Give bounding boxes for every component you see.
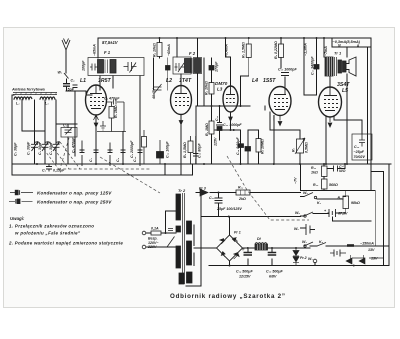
wire C20 col: [218, 193, 220, 217]
capacitor C12 dark: [217, 127, 222, 131]
svg-text:5pF: 5pF: [68, 88, 75, 92]
Tr2 right bars: [187, 221, 192, 234]
svg-text:C₉: C₉: [71, 79, 76, 83]
wire w4 stub: [301, 214, 372, 222]
svg-text:~7V: ~7V: [294, 177, 298, 184]
switch W3 contact: [304, 245, 306, 247]
svg-text:R₅ 1,5MΩ: R₅ 1,5MΩ: [183, 142, 187, 158]
wire det column: [203, 58, 205, 106]
contact tick: [347, 244, 354, 247]
F2 coil secondary: [195, 59, 201, 73]
speaker cone: [346, 57, 356, 76]
F1 trimmer cap: [124, 62, 137, 73]
wire dc mid rail: [201, 216, 301, 218]
dashed tuning link: [60, 138, 69, 169]
mains plug contacts: [142, 231, 146, 235]
svg-text:Tr 2: Tr 2: [178, 188, 186, 193]
svg-text:w położeniu „Fale średnie”: w położeniu „Fale średnie”: [15, 231, 81, 236]
wire right col b: [371, 172, 384, 266]
tube L3 filament arrow: [229, 112, 233, 121]
capacitor C13s: [193, 136, 199, 164]
svg-text:DM70: DM70: [215, 81, 228, 86]
svg-text:Pr 1: Pr 1: [234, 231, 241, 235]
svg-text:1T4T: 1T4T: [179, 78, 192, 84]
jack W6: [306, 224, 315, 235]
capacitor Ca: [80, 141, 85, 167]
wire w6 stub: [301, 227, 307, 229]
wire R8 column: [281, 38, 285, 86]
capacitor C18: [268, 253, 277, 256]
wire C16v col: [240, 130, 242, 164]
svg-text:R₃ 1MΩ: R₃ 1MΩ: [205, 123, 209, 136]
svg-text:R₉ 10kΩ: R₉ 10kΩ: [153, 43, 157, 57]
wire speaker right drop: [346, 74, 348, 164]
tube L1 filament arrow: [94, 115, 99, 127]
wire bridge bottom: [229, 261, 231, 266]
wire C16 column: [316, 38, 318, 95]
capacitor row: Ck: [121, 150, 126, 153]
svg-text:C₄ 30pF: C₄ 30pF: [49, 141, 53, 155]
tube L1 envelope: [86, 85, 107, 115]
svg-text:C₁₂ 1000pF: C₁₂ 1000pF: [223, 123, 242, 127]
F2 core: [192, 58, 193, 74]
resistor R10: [322, 179, 328, 189]
svg-text:C₁₉ 500μF: C₁₉ 500μF: [236, 270, 253, 274]
svg-text:70/02V: 70/02V: [354, 155, 366, 159]
F1 coil secondary: [110, 60, 116, 74]
switch W5: [304, 193, 323, 200]
F1 padder cap: [90, 64, 98, 71]
svg-text:25μF 100/125V: 25μF 100/125V: [216, 207, 242, 211]
svg-text:W₁: W₁: [58, 71, 63, 75]
wire r10 bottom: [323, 189, 325, 191]
variable capacitor C1: [31, 142, 38, 152]
antenna: [62, 39, 70, 51]
switch K4: [317, 243, 326, 247]
resistor R8: [343, 196, 349, 209]
coil pins: [14, 99, 55, 100]
svg-text:1R5T: 1R5T: [98, 78, 112, 84]
wire L3 cathode: [230, 112, 232, 130]
svg-text:1kΩ: 1kΩ: [311, 171, 318, 175]
resistor R5: [246, 44, 251, 58]
IF transformer F1 box: [88, 58, 144, 76]
svg-text:R₈ 0,22MΩ: R₈ 0,22MΩ: [274, 41, 278, 59]
wire r11 col: [323, 164, 325, 179]
coil Lp: [14, 97, 32, 99]
legend capacitor symbol 250V: [9, 200, 33, 202]
wire screen feed: [226, 38, 231, 57]
wire L4 left pin: [270, 112, 300, 130]
wire speaker top: [346, 47, 348, 57]
switch K2 contact: [314, 196, 316, 198]
svg-text:C₉: C₉: [116, 157, 120, 162]
tube L5 filament arrow: [326, 117, 332, 127]
resistor R12: [236, 190, 250, 195]
svg-text:C₁₁: C₁₁: [215, 115, 219, 121]
legend capacitor symbol 125V: [10, 192, 33, 194]
bridge diode 1: [232, 238, 238, 242]
wire w5 row: [301, 197, 346, 200]
fuse Bezp: [151, 231, 161, 235]
battery box outline: [301, 164, 372, 191]
svg-text:13V: 13V: [371, 257, 378, 261]
wire right edge drop: [370, 38, 372, 164]
F2 coil primary: [185, 59, 191, 73]
tube L2 envelope: [171, 86, 192, 115]
svg-text:L1: L1: [80, 78, 86, 84]
dashed gang line diagonal long: [227, 156, 309, 220]
svg-text:W₅: W₅: [303, 191, 308, 195]
svg-text:170pF: 170pF: [215, 61, 219, 72]
wire tap horizontal: [166, 210, 177, 212]
resistor R3: [209, 121, 214, 134]
wire L5 pins: [326, 117, 362, 164]
bridge diode 3: [221, 252, 225, 258]
wire C18 col: [271, 248, 273, 266]
Tr1 core: [335, 57, 337, 76]
wire C19 col: [247, 248, 249, 266]
capacitor row under rail: C7: [94, 150, 99, 153]
svg-text:R₈: R₈: [338, 196, 343, 200]
svg-text:C₉ 2000pF: C₉ 2000pF: [130, 140, 134, 158]
wire bridge right to choke: [243, 247, 311, 249]
coil Ld: [40, 97, 55, 99]
svg-text:~7mA: ~7mA: [324, 46, 328, 56]
wire C11 col: [219, 106, 221, 140]
F2 trimmer: [175, 63, 185, 72]
variable capacitor C2: [42, 142, 49, 152]
tube L4 filament arrow: [274, 116, 282, 126]
wire F2 bottom pins: [181, 74, 198, 107]
resistor R12 hatch: [241, 190, 246, 195]
capacitor C5f dark: [166, 66, 171, 71]
resistor R9: [157, 43, 162, 57]
dashed gang diag b: [49, 142, 69, 169]
F1 coil primary: [98, 60, 104, 74]
wire bridge left: [194, 247, 217, 249]
svg-text:Pr 3: Pr 3: [199, 187, 206, 191]
svg-text:48±5V: 48±5V: [152, 88, 156, 100]
svg-text:~60mA: ~60mA: [167, 44, 171, 56]
voltage selector: [167, 237, 175, 248]
capacitor C22 tap: [168, 229, 173, 231]
wire tuning col 2: [22, 100, 45, 164]
svg-text:C₃ 30pF: C₃ 30pF: [38, 141, 42, 155]
wire det bus: [196, 106, 250, 164]
wire tap vertical: [165, 211, 167, 233]
wire mains row2: [146, 246, 176, 248]
capacitor C14 dark: [245, 147, 251, 152]
svg-text:~25μF: ~25μF: [354, 150, 365, 154]
dashed gang line horizontal: [58, 168, 150, 170]
svg-text:12/15V: 12/15V: [239, 275, 251, 279]
tube L4 envelope: [269, 87, 291, 116]
capacitor C13 symbol: [359, 134, 365, 147]
svg-text:W₃: W₃: [302, 240, 307, 244]
svg-text:Antena ferrytowa: Antena ferrytowa: [11, 87, 45, 92]
svg-text:R₁₀: R₁₀: [313, 183, 319, 187]
trimmer C6t: [154, 84, 162, 93]
svg-text:13V: 13V: [368, 248, 375, 252]
svg-text:125V: 125V: [214, 137, 218, 146]
resistor R6: [256, 139, 261, 153]
rectifier Pr2 diodes: [346, 255, 365, 264]
wire right col c: [371, 191, 375, 247]
switch W4: [304, 212, 313, 216]
wire tuning col 1: [22, 100, 35, 164]
svg-text:C₁₂ 100μF: C₁₂ 100μF: [166, 141, 170, 158]
svg-text:0,5MΩ: 0,5MΩ: [305, 142, 309, 153]
wire L5 grid feed: [304, 38, 317, 95]
capacitor C4g: [107, 100, 125, 105]
wire rail B lower: [12, 164, 193, 175]
diode Pr3: [200, 189, 208, 196]
svg-text:C₁ 30pF: C₁ 30pF: [27, 141, 31, 155]
output transformer Tr1 primary: [325, 57, 333, 76]
wire R7 col: [299, 130, 301, 164]
wire left column: [11, 95, 13, 175]
wire F1 bottom pins: [100, 76, 113, 90]
wire C14 col: [247, 130, 249, 164]
svg-text:C₇: C₇: [89, 157, 93, 162]
wire c19no row: [327, 164, 345, 169]
wire left drop to F1: [97, 38, 99, 58]
svg-text:K₄: K₄: [319, 240, 324, 244]
wire ant coil left: [12, 94, 14, 96]
svg-text:1S5T: 1S5T: [263, 78, 276, 84]
wire Tr2 sec down: [193, 225, 195, 266]
svg-text:C₆: C₆: [42, 169, 47, 173]
svg-text:C₆ 470pF: C₆ 470pF: [72, 137, 76, 153]
battery row wire: [330, 253, 383, 258]
electrolytic C10 dark: [157, 152, 164, 159]
coil Dl2 small: [142, 137, 147, 148]
tube L3 electrodes: [226, 86, 235, 103]
tube L3 envelope: [223, 86, 238, 112]
svg-text:R₄ 10kΩ: R₄ 10kΩ: [205, 81, 209, 95]
wire L1 cathode: [95, 115, 97, 164]
svg-text:2kΩ: 2kΩ: [238, 197, 246, 201]
capacitor Cg: [63, 84, 70, 87]
diode Pr2 double: [293, 248, 299, 266]
svg-text:L₃: L₃: [45, 102, 49, 106]
tube L1 electrodes: [90, 85, 104, 109]
svg-text:K₂: K₂: [317, 201, 322, 205]
wire ant down: [65, 50, 68, 91]
variable capacitor C3: [53, 142, 60, 152]
tube L2 filament arrow: [179, 115, 183, 125]
svg-text:C₁₆ 0,01μF: C₁₆ 0,01μF: [236, 137, 240, 155]
wire R6 col: [248, 130, 259, 164]
capacitor C19no: [334, 166, 338, 172]
svg-text:120V~: 120V~: [148, 241, 159, 245]
F1 core: [105, 60, 108, 74]
capacitor C11: [216, 123, 223, 126]
wire R1 col: [122, 132, 124, 165]
bridge rectifier Pr1: [217, 235, 243, 261]
capacitor C15: [281, 73, 289, 76]
wire C5f stub: [167, 58, 169, 90]
switch W3: [304, 242, 313, 246]
svg-text:R₁₁: R₁₁: [311, 166, 317, 170]
dashed gang diag c: [60, 142, 80, 169]
wire F1 right pin: [139, 76, 141, 164]
svg-text:C₁₈ 500μF: C₁₈ 500μF: [266, 270, 283, 274]
svg-text:Tr 1: Tr 1: [334, 51, 342, 56]
capacitor C16h hatched: [314, 65, 319, 70]
svg-text:1. Przełącznik zakresów oznacz: 1. Przełącznik zakresów oznaczono: [9, 224, 94, 229]
svg-text:0,1A: 0,1A: [151, 227, 159, 231]
wire right col a: [388, 164, 390, 266]
svg-text:W₄: W₄: [295, 211, 300, 215]
svg-text:560Ω: 560Ω: [329, 183, 338, 187]
resistor R8t: [279, 44, 284, 58]
svg-text:87,5±1V: 87,5±1V: [102, 40, 119, 45]
resistor R11: [322, 166, 328, 177]
ground symbol L1: [100, 121, 106, 130]
svg-text:~0,4mA: ~0,4mA: [225, 44, 229, 57]
wire chassis rail A: [12, 163, 391, 165]
trimmer box C6t: [61, 128, 77, 138]
capacitor C19: [244, 253, 253, 256]
svg-text:L4: L4: [252, 78, 258, 84]
wire R9 drop: [159, 38, 161, 58]
wire IF junction: [153, 58, 155, 90]
svg-text:Uwagi:: Uwagi:: [10, 216, 25, 221]
resistor R1: [109, 107, 114, 119]
tube L5 envelope: [319, 87, 342, 117]
wire w2 stub: [314, 263, 316, 266]
capacitor C6: [46, 164, 52, 172]
wire left power col: [186, 193, 201, 287]
choke Dl: [255, 244, 268, 250]
svg-text:100pF: 100pF: [82, 60, 86, 71]
svg-text:C₁₃: C₁₃: [354, 145, 360, 149]
wire avc to grid: [66, 91, 86, 156]
speaker coil: [343, 61, 347, 72]
wire box right inner: [367, 47, 369, 164]
svg-text:L3: L3: [217, 87, 223, 92]
wire rail jumper: [164, 164, 166, 175]
svg-text:Pr.2: Pr.2: [300, 256, 307, 260]
svg-text:67,5V: 67,5V: [338, 212, 348, 216]
wire R5 column: [241, 38, 249, 106]
svg-text:C₄ 470pF: C₄ 470pF: [104, 97, 120, 101]
capacitor C16v dark: [238, 144, 244, 148]
ferrite antenna core: [13, 93, 57, 95]
battery 67V: [329, 209, 336, 217]
wire L3 top: [230, 57, 232, 86]
svg-text:~65mA: ~65mA: [93, 44, 97, 56]
svg-text:6/8V: 6/8V: [269, 275, 277, 279]
wire bridge top: [229, 217, 231, 236]
svg-text:~1,3mA: ~1,3mA: [304, 43, 308, 56]
svg-text:R₅ 1,5MΩ: R₅ 1,5MΩ: [242, 42, 246, 58]
svg-text:Kondensator o nap. pracy 125V: Kondensator o nap. pracy 125V: [37, 191, 112, 196]
svg-text:C₆: C₆: [63, 124, 68, 128]
svg-text:L2: L2: [166, 78, 172, 84]
capacitor row: Cm: [138, 141, 143, 167]
Tr2 core: [183, 193, 185, 284]
wire meter box: [332, 38, 371, 47]
tube L4 electrodes: [274, 87, 288, 110]
wire Tr1 to L5 plate: [329, 76, 331, 88]
wire F2 second: [197, 38, 199, 58]
wire L4 grid left: [264, 106, 266, 110]
wire mains row1: [146, 232, 176, 234]
wire r8 stub: [337, 191, 346, 214]
svg-text:C₁₇ 3400pF: C₁₇ 3400pF: [311, 56, 315, 75]
battery 13V: [334, 250, 340, 257]
IF transformer F2 box: [173, 57, 191, 74]
capacitor C13 box: [352, 134, 372, 160]
wire R4 column: [211, 94, 213, 106]
wire grid row: [97, 131, 126, 133]
wire power bottom rail: [209, 265, 389, 267]
capacitor C20: [215, 198, 223, 203]
switch W4 contact: [304, 215, 306, 217]
svg-text:C₁₅ 1000pF: C₁₅ 1000pF: [278, 68, 297, 72]
bridge diode 2: [234, 253, 240, 260]
tube L5 electrodes: [324, 88, 338, 111]
wire C9f stub: [211, 58, 213, 83]
svg-text:98kΩ: 98kΩ: [351, 201, 360, 205]
svg-text:F 1: F 1: [104, 50, 111, 55]
dashed gang diag a: [39, 142, 59, 169]
capacitor C8: [73, 85, 78, 88]
svg-text:C₅ 38pF: C₅ 38pF: [14, 142, 18, 156]
bridge diode 4: [220, 239, 226, 245]
dashed gang line diagonal short: [100, 157, 160, 193]
tube L2 electrodes: [175, 86, 189, 106]
wire top B+ rail: [98, 37, 371, 39]
potentiometer R7 arrow: [295, 138, 305, 154]
svg-text:N/O: N/O: [339, 169, 346, 173]
wire battery67 stub: [328, 212, 346, 214]
wire det row: [215, 129, 241, 131]
svg-text:C₁₃ 80pF: C₁₃ 80pF: [198, 143, 202, 158]
Tr1 secondary: [338, 60, 342, 73]
resistor R4: [209, 83, 214, 95]
svg-text:220V~: 220V~: [147, 245, 159, 249]
wire C13 drop: [361, 120, 363, 134]
svg-text:W₂: W₂: [308, 257, 313, 261]
svg-text:R₆ 10MΩ: R₆ 10MΩ: [261, 139, 265, 154]
svg-text:L₂: L₂: [16, 102, 20, 106]
power transformer Tr2 left bars: [176, 194, 181, 220]
wire filament row: [310, 245, 389, 247]
wire L1 grid: [86, 91, 92, 95]
svg-text:2. Podane wartości napięć zmie: 2. Podane wartości napięć zmierzono stat…: [8, 241, 123, 246]
choke Dl bumps: [255, 243, 267, 245]
wire rect feed: [196, 192, 301, 194]
svg-text:R₁ 1MΩ: R₁ 1MΩ: [114, 105, 118, 118]
capacitor C19 plus: [242, 248, 245, 251]
wire Tr1 feed: [323, 38, 325, 57]
capacitor Cb: [108, 143, 113, 167]
svg-text:R₇: R₇: [292, 147, 296, 152]
svg-text:C₂₀: C₂₀: [209, 196, 215, 200]
wire tuning col 3: [56, 100, 77, 164]
wire R3 col: [211, 106, 213, 164]
svg-text:N: N: [338, 44, 341, 48]
svg-text:F 2: F 2: [189, 51, 196, 56]
potentiometer R7: [297, 139, 304, 153]
svg-text:0,15μF: 0,15μF: [53, 169, 65, 173]
switch W2 circle: [313, 259, 317, 263]
svg-text:Kondensator o nap. pracy 250V: Kondensator o nap. pracy 250V: [37, 199, 112, 204]
